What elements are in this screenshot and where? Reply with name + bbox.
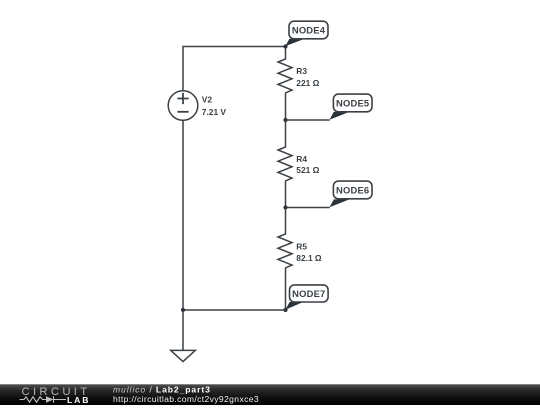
- ground: [171, 310, 196, 362]
- node label NODE6: [330, 181, 373, 207]
- node label NODE5: [330, 94, 373, 120]
- svg-text:NODE5: NODE5: [336, 97, 369, 108]
- svg-text:R4: R4: [296, 154, 307, 164]
- resistor R5: [278, 208, 292, 311]
- wire from V2 top to NODE4: [183, 47, 286, 91]
- R4 labels: [296, 154, 319, 175]
- wire NODE5 stub: [286, 119, 330, 121]
- svg-text:R3: R3: [296, 66, 307, 76]
- svg-text:R5: R5: [296, 241, 307, 251]
- node NODE4 junction dot: [283, 44, 287, 48]
- svg-text:LAB: LAB: [67, 395, 90, 405]
- svg-text:7.21 V: 7.21 V: [202, 107, 227, 117]
- svg-text:82.1 Ω: 82.1 Ω: [296, 253, 322, 263]
- svg-text:http://circuitlab.com/ct2vy92g: http://circuitlab.com/ct2vy92gnxce3: [113, 394, 259, 404]
- svg-text:NODE4: NODE4: [292, 24, 326, 35]
- wire NODE6 stub: [286, 207, 330, 209]
- node NODE5 junction dot: [283, 118, 287, 122]
- V2 value labels: [202, 95, 227, 118]
- svg-text:221 Ω: 221 Ω: [296, 78, 319, 88]
- svg-text:NODE7: NODE7: [292, 288, 325, 299]
- node label NODE7: [285, 285, 328, 310]
- svg-text:521 Ω: 521 Ω: [296, 165, 319, 175]
- wire from V2 bottom to ground junction: [182, 120, 184, 310]
- voltage source V2: [168, 91, 198, 121]
- node NODE7 junction dot: [283, 308, 287, 312]
- node label NODE4: [285, 21, 328, 46]
- R5 labels: [296, 241, 322, 263]
- resistor R4: [278, 120, 292, 208]
- R3 labels: [296, 66, 319, 88]
- svg-text:NODE6: NODE6: [336, 184, 369, 195]
- resistor R3: [278, 47, 292, 121]
- ground junction dot: [181, 308, 185, 312]
- footer bar: [0, 384, 540, 405]
- node NODE6 junction dot: [283, 205, 287, 209]
- bottom wire from ground junction to NODE7: [183, 309, 286, 311]
- CircuitLab logo resistor-diode glyph: [20, 396, 67, 402]
- svg-text:V2: V2: [202, 95, 213, 105]
- svg-text:mullico / Lab2_part3: mullico / Lab2_part3: [113, 384, 211, 394]
